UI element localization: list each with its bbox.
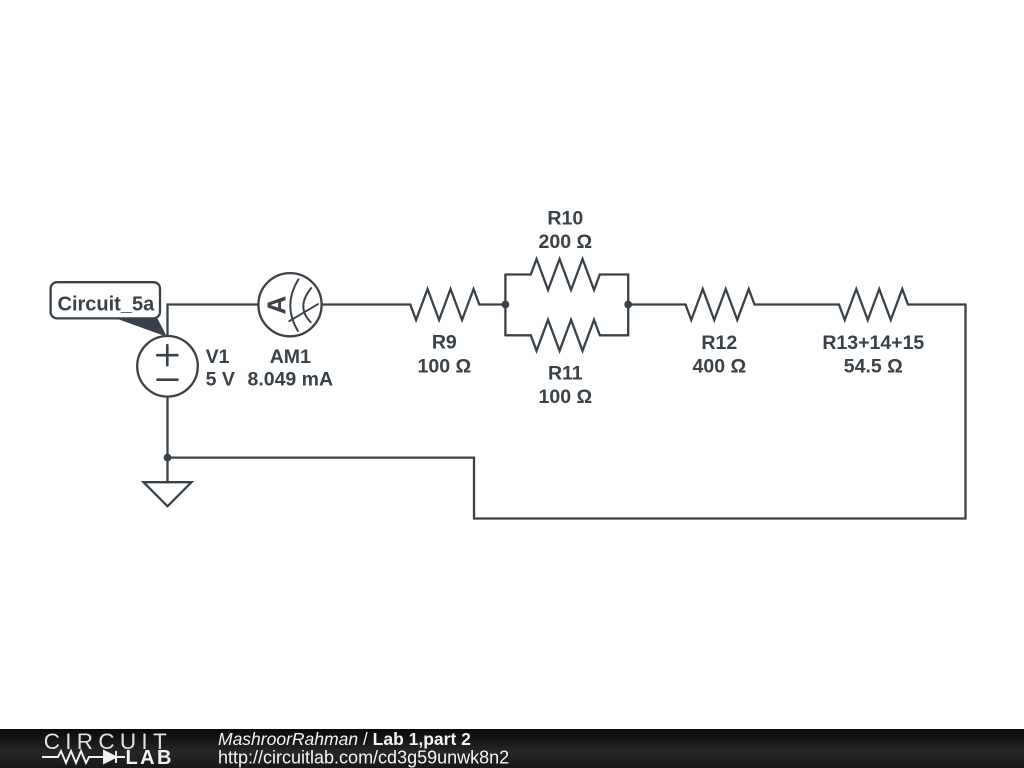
node A (left junction dot) [502, 301, 510, 309]
wire parallel-box right vertical [627, 275, 629, 336]
svg-text:R9: R9 [432, 332, 457, 354]
wire R9 to node A [479, 303, 505, 305]
svg-text:400 Ω: 400 Ω [693, 355, 747, 377]
wire bottom rail left lead [505, 334, 530, 336]
svg-text:AM1: AM1 [270, 346, 311, 368]
CircuitLab logo resistor-diode squiggle [42, 751, 125, 763]
svg-text:Circuit_5a: Circuit_5a [58, 294, 156, 316]
resistor R9 [410, 289, 479, 320]
resistor R11 [531, 320, 600, 351]
wire ammeter to R9 [322, 303, 411, 305]
wire top rail right lead [600, 273, 628, 275]
net label Circuit_5a box [51, 282, 160, 318]
net label Circuit_5a tail [115, 318, 166, 336]
svg-text:8.049 mA: 8.049 mA [247, 368, 333, 390]
svg-text:LAB: LAB [126, 747, 174, 768]
resistor R12 [686, 289, 755, 320]
svg-text:R12: R12 [701, 332, 737, 354]
ammeter AM1 circle [258, 273, 321, 336]
V1 plus sign [157, 345, 177, 365]
svg-text:200 Ω: 200 Ω [539, 231, 593, 253]
wire ground node up to V1 bottom [166, 397, 168, 458]
wire parallel-box left vertical [504, 275, 506, 336]
node C (ground junction dot) [164, 454, 172, 462]
ammeter scale arc inner [303, 288, 311, 322]
wire from V1 top to ammeter [168, 305, 259, 337]
ammeter scale arc outer [290, 279, 298, 331]
svg-text:V1: V1 [206, 346, 230, 368]
wire node B to R12 [628, 303, 685, 305]
wire R13 to right edge, down, and along bottom [168, 305, 966, 519]
svg-text:MashroorRahman / Lab 1,part 2: MashroorRahman / Lab 1,part 2 [218, 729, 471, 749]
wire top rail left lead [505, 273, 530, 275]
svg-text:R11: R11 [548, 363, 583, 385]
resistor R10 [531, 259, 600, 290]
wire R12 to R13 [755, 303, 840, 305]
svg-text:A: A [261, 295, 291, 314]
node B (right junction dot) [624, 301, 632, 309]
svg-text:100 Ω: 100 Ω [539, 386, 593, 408]
ammeter needle [289, 304, 318, 321]
V1 minus sign [158, 378, 178, 381]
wire bottom rail right lead [600, 334, 628, 336]
footer banner [0, 729, 1024, 768]
voltage source V1 circle [137, 336, 198, 397]
svg-text:R13+14+15: R13+14+15 [822, 332, 924, 354]
svg-text:5 V: 5 V [206, 368, 235, 390]
wire ground node to ground symbol [166, 458, 168, 483]
svg-text:http://circuitlab.com/cd3g59un: http://circuitlab.com/cd3g59unwk8n2 [218, 748, 509, 768]
ground [144, 482, 192, 506]
svg-text:100 Ω: 100 Ω [418, 355, 472, 377]
svg-text:54.5 Ω: 54.5 Ω [844, 355, 903, 377]
svg-text:R10: R10 [547, 208, 583, 230]
resistor R13+14+15 [839, 289, 908, 320]
